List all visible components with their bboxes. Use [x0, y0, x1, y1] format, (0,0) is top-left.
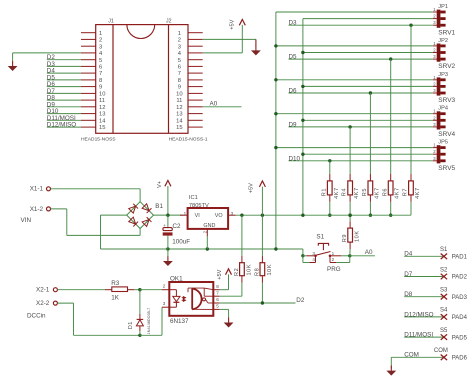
svg-text:COM: COM [434, 348, 448, 354]
svg-text:PAD2: PAD2 [452, 275, 468, 281]
svg-text:7: 7 [99, 71, 102, 77]
svg-text:5: 5 [99, 58, 102, 64]
svg-text:+5V: +5V [230, 19, 236, 29]
svg-text:8: 8 [178, 78, 181, 84]
svg-text:D12/MISO: D12/MISO [47, 122, 76, 129]
svg-text:X1-1: X1-1 [30, 186, 44, 193]
svg-text:13: 13 [99, 112, 105, 118]
svg-text:1: 1 [433, 7, 436, 12]
svg-text:VI: VI [195, 213, 200, 219]
svg-text:PAD6: PAD6 [452, 356, 468, 362]
svg-text:1: 1 [178, 31, 181, 37]
svg-text:R3: R3 [111, 280, 120, 287]
svg-text:3: 3 [433, 54, 436, 59]
svg-text:R7: R7 [403, 188, 409, 196]
svg-text:R2: R2 [234, 268, 240, 276]
svg-text:R8: R8 [255, 268, 261, 276]
svg-text:4: 4 [99, 51, 103, 57]
svg-text:7: 7 [178, 71, 181, 77]
svg-text:4K7: 4K7 [354, 187, 360, 199]
svg-text:11: 11 [176, 98, 182, 104]
svg-text:+: + [163, 223, 166, 228]
svg-text:3: 3 [433, 122, 436, 127]
svg-text:8: 8 [99, 78, 102, 84]
svg-text:8: 8 [216, 284, 219, 289]
svg-text:14: 14 [99, 118, 106, 124]
svg-text:3: 3 [231, 211, 234, 216]
svg-text:V+: V+ [157, 181, 163, 188]
svg-text:PRG: PRG [327, 266, 341, 273]
svg-text:S3: S3 [440, 288, 448, 294]
svg-text:R4: R4 [342, 188, 348, 196]
svg-text:SRV3: SRV3 [438, 97, 455, 104]
svg-text:JP1: JP1 [438, 4, 448, 10]
svg-text:R5: R5 [362, 188, 368, 196]
svg-text:GND: GND [203, 223, 215, 229]
svg-text:11: 11 [99, 98, 105, 104]
svg-text:10: 10 [176, 92, 182, 98]
svg-text:13: 13 [176, 112, 182, 118]
svg-text:2: 2 [332, 257, 335, 262]
svg-text:4K7: 4K7 [415, 187, 421, 199]
svg-text:1: 1 [433, 41, 436, 46]
svg-text:1: 1 [433, 143, 436, 148]
svg-text:D10: D10 [289, 155, 301, 162]
svg-text:D9: D9 [289, 121, 298, 128]
svg-text:D6: D6 [289, 88, 298, 95]
svg-text:1: 1 [184, 211, 187, 216]
svg-text:PAD5: PAD5 [452, 335, 468, 341]
svg-text:5: 5 [216, 304, 219, 309]
svg-text:15: 15 [176, 125, 182, 131]
svg-text:4: 4 [312, 257, 315, 262]
svg-text:1N4148DO35-7: 1N4148DO35-7 [147, 308, 151, 335]
svg-text:1: 1 [332, 251, 335, 256]
svg-text:2: 2 [202, 230, 207, 233]
svg-text:S1: S1 [440, 247, 448, 253]
svg-text:10K: 10K [247, 264, 253, 276]
svg-text:R6: R6 [382, 188, 388, 196]
svg-text:6: 6 [216, 297, 219, 302]
svg-text:10: 10 [99, 92, 105, 98]
svg-text:4: 4 [178, 51, 182, 57]
svg-text:3: 3 [178, 44, 181, 50]
svg-text:3: 3 [433, 20, 436, 25]
svg-text:D2: D2 [296, 297, 305, 304]
svg-text:R9: R9 [342, 234, 348, 242]
svg-text:4K7: 4K7 [334, 187, 340, 199]
svg-text:D11/MOSI: D11/MOSI [404, 332, 433, 339]
svg-text:15: 15 [99, 125, 105, 131]
svg-text:SRV4: SRV4 [438, 131, 455, 138]
svg-text:10K: 10K [267, 264, 273, 276]
svg-text:7: 7 [216, 290, 219, 295]
svg-text:D5: D5 [289, 54, 298, 61]
svg-text:B1: B1 [155, 203, 163, 210]
svg-text:D1: D1 [128, 321, 134, 329]
svg-text:PAD4: PAD4 [452, 315, 468, 321]
svg-text:OK1: OK1 [170, 276, 183, 283]
svg-text:2: 2 [433, 81, 436, 86]
svg-text:1: 1 [99, 31, 102, 37]
svg-text:5: 5 [178, 58, 181, 64]
svg-text:9: 9 [178, 85, 181, 91]
svg-text:VO: VO [215, 213, 223, 219]
svg-text:2: 2 [433, 48, 436, 53]
svg-text:2: 2 [163, 283, 166, 288]
svg-text:1: 1 [433, 109, 436, 114]
svg-text:3: 3 [163, 301, 166, 306]
svg-text:3: 3 [99, 44, 102, 50]
svg-text:COM: COM [404, 352, 419, 359]
svg-text:12: 12 [99, 105, 105, 111]
svg-text:DCCin: DCCin [27, 313, 46, 320]
svg-text:SRV2: SRV2 [438, 63, 455, 70]
svg-text:S5: S5 [440, 328, 448, 334]
svg-text:4K7: 4K7 [395, 187, 401, 199]
svg-text:X2-2: X2-2 [36, 300, 50, 307]
svg-text:2: 2 [99, 38, 102, 44]
svg-text:X1-2: X1-2 [30, 206, 44, 213]
svg-text:6: 6 [99, 65, 102, 71]
svg-text:HEAD15-NOSS-1: HEAD15-NOSS-1 [169, 136, 208, 142]
svg-text:3: 3 [433, 88, 436, 93]
svg-text:10K: 10K [354, 230, 360, 242]
svg-text:12: 12 [176, 105, 182, 111]
svg-text:S1: S1 [316, 233, 324, 240]
svg-text:6N137: 6N137 [170, 318, 189, 325]
svg-text:J2: J2 [166, 19, 172, 25]
svg-text:SRV5: SRV5 [438, 165, 455, 172]
svg-text:PAD3: PAD3 [452, 295, 468, 301]
svg-text:+5V: +5V [217, 269, 223, 279]
svg-text:HEAD15-NOSS: HEAD15-NOSS [81, 136, 116, 142]
svg-text:PAD1: PAD1 [452, 255, 468, 261]
svg-text:D3: D3 [289, 20, 298, 27]
svg-text:S2: S2 [440, 267, 448, 273]
svg-text:14: 14 [176, 118, 183, 124]
svg-text:9: 9 [99, 85, 102, 91]
svg-text:1K: 1K [111, 295, 120, 302]
svg-text:S4: S4 [440, 308, 448, 314]
svg-text:2: 2 [433, 149, 436, 154]
svg-text:JP2: JP2 [438, 38, 448, 44]
svg-text:D7: D7 [404, 271, 413, 278]
svg-text:3: 3 [433, 156, 436, 161]
svg-text:6: 6 [178, 65, 181, 71]
svg-text:2: 2 [433, 115, 436, 120]
svg-text:2: 2 [178, 38, 181, 44]
svg-text:3: 3 [312, 251, 315, 256]
svg-text:+5V: +5V [248, 183, 254, 193]
svg-text:D12/MISO: D12/MISO [404, 311, 433, 318]
svg-text:4K7: 4K7 [374, 187, 380, 199]
svg-text:100uF: 100uF [172, 238, 190, 245]
svg-text:C2: C2 [173, 223, 182, 230]
svg-text:SRV1: SRV1 [438, 29, 455, 36]
svg-text:A0: A0 [210, 101, 218, 108]
svg-text:1: 1 [433, 75, 436, 80]
svg-text:7805TV: 7805TV [189, 203, 209, 209]
svg-text:J1: J1 [108, 19, 114, 25]
svg-text:IC1: IC1 [189, 195, 198, 201]
svg-text:D4: D4 [404, 251, 413, 258]
svg-text:JP5: JP5 [438, 140, 448, 146]
svg-text:R1: R1 [321, 188, 327, 196]
svg-text:X2-1: X2-1 [36, 286, 50, 293]
svg-text:2: 2 [433, 14, 436, 19]
svg-text:VIN: VIN [21, 217, 32, 224]
svg-text:JP4: JP4 [438, 106, 448, 112]
svg-text:A0: A0 [365, 249, 373, 256]
svg-text:D8: D8 [404, 291, 413, 298]
svg-text:JP3: JP3 [438, 72, 448, 78]
